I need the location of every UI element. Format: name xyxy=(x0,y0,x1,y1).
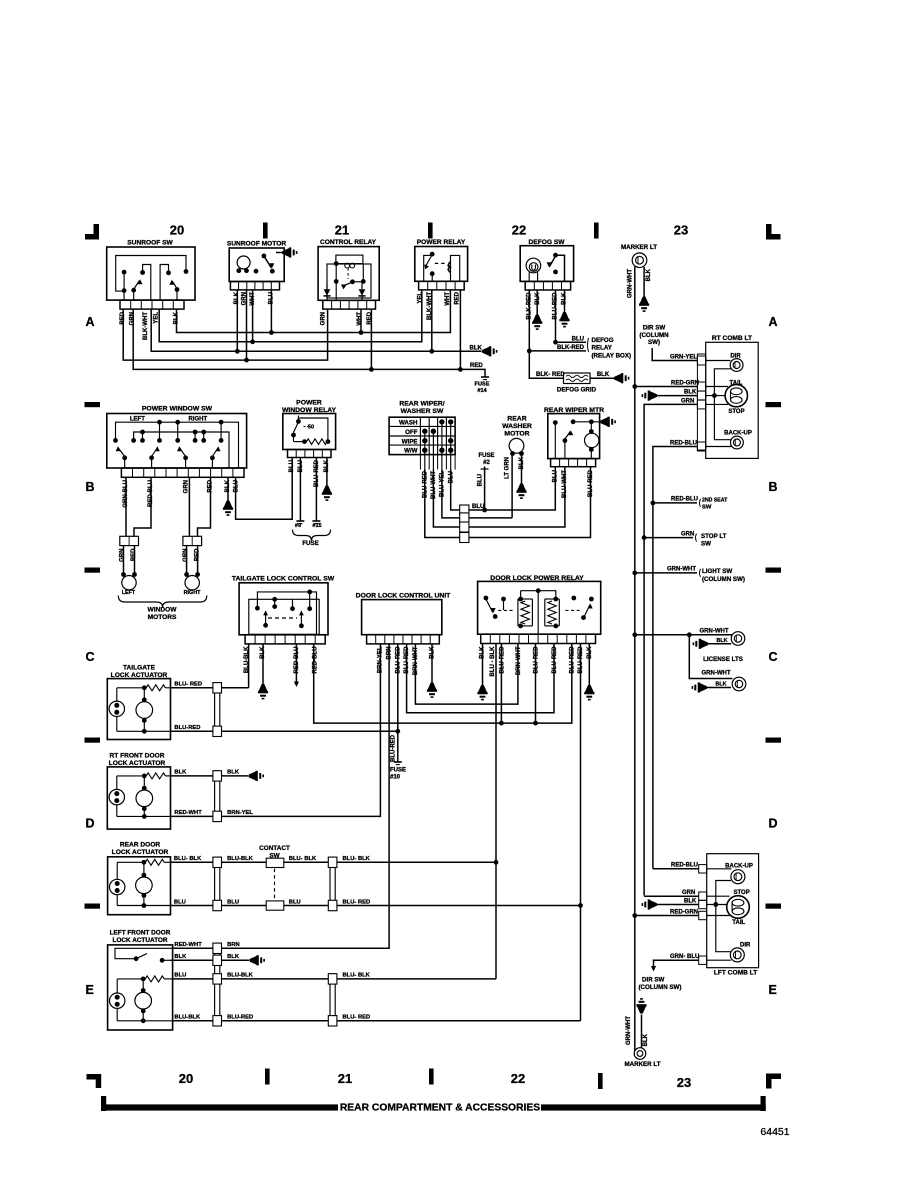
svg-text:BLU-RED: BLU-RED xyxy=(552,646,558,674)
svg-text:SUNROOF SW: SUNROOF SW xyxy=(127,240,173,247)
switch SUNROOF SW box xyxy=(107,240,195,310)
bulb DIR (rt comb) xyxy=(706,354,743,372)
svg-text:BLU: BLU xyxy=(472,504,484,510)
wire BRN control unit to LEFT front door actuator xyxy=(246,644,389,948)
svg-text:BLK: BLK xyxy=(684,390,697,396)
svg-text:50: 50 xyxy=(308,425,314,431)
svg-text:BRN: BRN xyxy=(227,942,240,948)
column tick bottom 21/22 xyxy=(429,1069,434,1085)
svg-text:BLK: BLK xyxy=(174,954,187,960)
wire left front door RED-WHT/BRN xyxy=(173,942,246,948)
svg-text:23: 23 xyxy=(674,223,688,238)
svg-text:DEFOG SW: DEFOG SW xyxy=(529,239,566,246)
svg-text:BLU: BLU xyxy=(572,336,584,342)
svg-text:23: 23 xyxy=(677,1075,691,1090)
wire labels GRN RED (left motor) xyxy=(120,548,138,562)
wire sunroof motor BLU drop xyxy=(270,290,272,333)
connector stack rear wiper harness xyxy=(460,505,469,543)
motor REAR WIPER MTR box xyxy=(544,407,604,467)
lamp assembly LFT COMB LT box xyxy=(699,854,759,977)
svg-text:(RELAY BOX): (RELAY BOX) xyxy=(592,352,632,359)
svg-text:#9: #9 xyxy=(295,523,301,529)
wire washer motor BLK to ground xyxy=(521,456,523,484)
svg-text:CONTACT: CONTACT xyxy=(259,845,290,852)
wire defog sw BLU-RED to relay box BLU xyxy=(553,290,586,345)
svg-text:21: 21 xyxy=(335,223,349,238)
svg-text:RED-BLU: RED-BLU xyxy=(670,440,697,446)
ground rt front door BLK xyxy=(249,772,256,781)
relay DOOR LOCK POWER RELAY box xyxy=(478,575,601,644)
svg-text:W/W: W/W xyxy=(404,448,418,455)
wire wiper link BLU-WHT horizontal xyxy=(433,467,565,527)
switch CONTACT SW xyxy=(259,845,290,910)
wire labels rear door top xyxy=(174,856,371,862)
fuse #10 xyxy=(390,762,406,781)
svg-text:BLK: BLK xyxy=(227,770,240,776)
svg-text:RELAY: RELAY xyxy=(592,344,613,351)
wire tailgate sw BLK to ground xyxy=(262,644,264,684)
svg-text:TAILGATE: TAILGATE xyxy=(123,665,156,672)
svg-text:BLU-RED: BLU-RED xyxy=(174,725,200,731)
wire GRN into rt comb lt (trunk T2 start) xyxy=(644,398,697,537)
wire relay BLU-RED p3 drop to long run xyxy=(499,644,504,726)
motor SUNROOF MOTOR box xyxy=(227,241,286,290)
branch RED-BLU to 2ND SEAT SW xyxy=(653,497,728,511)
svg-text:DIR SW: DIR SW xyxy=(642,977,665,984)
wire labels rear door bottom xyxy=(174,899,370,905)
svg-text:BLK-WHT: BLK-WHT xyxy=(143,312,149,340)
wire RED-BLU to left window motor xyxy=(134,477,151,536)
inline connector left front door actuator xyxy=(215,943,220,1026)
svg-text:MOTOR: MOTOR xyxy=(504,431,529,438)
svg-text:RED-BLU: RED-BLU xyxy=(671,863,698,869)
svg-text:OFF: OFF xyxy=(405,429,418,436)
wire door relay BLK p1 to ground xyxy=(482,644,484,686)
svg-text:RED: RED xyxy=(455,291,461,304)
wire RED-GRN into lft comb (from T1) xyxy=(632,909,698,918)
svg-text:GRN: GRN xyxy=(681,531,694,537)
wire GRN-BLU to left window motor xyxy=(125,477,127,536)
svg-text:B: B xyxy=(86,480,95,494)
column tick top 20/21 xyxy=(263,223,268,239)
ground door relay left xyxy=(478,685,487,692)
fuse #2 stub xyxy=(478,453,494,510)
svg-text:MARKER LT: MARKER LT xyxy=(625,1061,661,1068)
svg-text:POWER: POWER xyxy=(296,400,322,407)
svg-text:#15: #15 xyxy=(312,523,321,529)
ground window relay BLK xyxy=(323,486,332,493)
svg-text:STOP: STOP xyxy=(728,409,744,415)
svg-text:WHT: WHT xyxy=(357,312,363,326)
svg-text:BLU-RED: BLU-RED xyxy=(534,646,540,674)
svg-text:BLU: BLU xyxy=(478,474,484,486)
svg-text:BLK: BLK xyxy=(227,954,240,960)
wire control relay WHT drop xyxy=(360,309,362,332)
svg-text:CONTROL RELAY: CONTROL RELAY xyxy=(320,239,377,246)
svg-text:BLK: BLK xyxy=(715,682,726,688)
column tick bottom 22/23 xyxy=(598,1073,603,1089)
svg-text:BLU- RED: BLU- RED xyxy=(343,1015,371,1021)
wire washer motor LT GRN down xyxy=(511,456,513,518)
svg-text:BLU-BLK: BLU-BLK xyxy=(174,1015,201,1021)
switch TAILGATE LOCK CONTROL SW box xyxy=(232,576,335,644)
motor LEFT window xyxy=(121,546,137,596)
svg-text:RED-WHT: RED-WHT xyxy=(174,810,202,816)
svg-text:REAR COMPARTMENT & ACCESSORIES: REAR COMPARTMENT & ACCESSORIES xyxy=(340,1102,540,1113)
svg-text:TAIL: TAIL xyxy=(732,920,745,926)
svg-text:C: C xyxy=(86,650,95,664)
svg-text:DOOR LOCK CONTROL UNIT: DOOR LOCK CONTROL UNIT xyxy=(356,592,451,599)
ground defog grid xyxy=(614,374,621,383)
wire rear door BLU/BLU-RED bottom run xyxy=(171,905,581,907)
wire window relay BLU-RED to fuse 15 xyxy=(312,458,321,530)
wire bus row A line5 (RED feed to FUSE 14) xyxy=(133,309,485,377)
column tick top 22/23 xyxy=(594,223,599,239)
svg-text:BLU: BLU xyxy=(289,460,295,472)
wire RED-GRN into rt comb lt xyxy=(632,380,699,389)
svg-text:GRN-WHT: GRN-WHT xyxy=(626,1016,632,1045)
svg-text:BLU- BLK: BLU- BLK xyxy=(343,856,371,862)
lamp MARKER LT top xyxy=(621,244,657,268)
wire wiper link BLU horizontal xyxy=(451,467,556,513)
svg-text:GRN-WHT: GRN-WHT xyxy=(702,670,731,676)
wire BLK with ground (lft comb) xyxy=(657,898,699,904)
svg-text:GRN-WHT: GRN-WHT xyxy=(628,269,634,298)
svg-text:2ND SEAT: 2ND SEAT xyxy=(702,498,728,504)
wire BLU-RED link control unit p4 to relay p5 xyxy=(407,644,554,713)
branch GRN to STOP LT SW xyxy=(644,531,727,547)
svg-text:20: 20 xyxy=(179,1071,193,1086)
wire defog sw BLK-RED to relay box xyxy=(527,290,586,353)
wire RED to right window motor xyxy=(198,477,211,536)
svg-text:LOCK ACTUATOR: LOCK ACTUATOR xyxy=(113,937,168,944)
svg-text:BLK: BLK xyxy=(470,345,483,351)
callout DIR SW (COLUMN SW) bottom xyxy=(639,977,682,992)
svg-text:WASHER SW: WASHER SW xyxy=(401,408,444,415)
row divider dash left y737 xyxy=(85,738,101,743)
wire control unit BLK to ground xyxy=(431,644,433,683)
wire RED-BLU into rt comb lt (trunk T3 start) xyxy=(653,440,698,503)
svg-text:SW: SW xyxy=(702,505,712,511)
actuator TAILGATE LOCK ACTUATOR box xyxy=(107,665,170,740)
svg-text:RED-BLU: RED-BLU xyxy=(671,497,698,503)
ground rt comb lt BLK xyxy=(650,391,657,400)
svg-text:DEFOG GRID: DEFOG GRID xyxy=(557,387,597,394)
page frame corner mark bottom-left xyxy=(87,1074,102,1088)
svg-text:WINDOW: WINDOW xyxy=(148,607,178,614)
svg-text:DIR: DIR xyxy=(740,943,751,949)
svg-text:GRN-YEL: GRN-YEL xyxy=(670,354,697,360)
svg-text:LEFT: LEFT xyxy=(122,590,136,596)
actuator LEFT FRONT DOOR LOCK ACTUATOR box xyxy=(108,930,173,1031)
svg-text:GRN-WHT: GRN-WHT xyxy=(667,567,696,573)
ground control unit BLK xyxy=(428,683,437,690)
wire power relay RED drop xyxy=(459,290,461,370)
wire BRN-WHT link control unit to relay xyxy=(415,644,518,705)
svg-text:BLU- BLK: BLU- BLK xyxy=(174,856,202,862)
ground door relay right xyxy=(585,685,594,692)
svg-text:BLK: BLK xyxy=(643,1033,649,1046)
svg-text:RT COMB LT: RT COMB LT xyxy=(712,335,752,342)
ground license lower BLK xyxy=(692,682,731,693)
svg-text:A: A xyxy=(769,315,778,329)
wire rt front door RED-WHT/BRN-YEL bottom xyxy=(171,810,254,816)
svg-text:BLU-BLK: BLU-BLK xyxy=(227,973,254,979)
row divider dash right y567 xyxy=(766,568,782,573)
svg-text:E: E xyxy=(86,983,94,997)
relay POWER WINDOW RELAY box xyxy=(282,400,337,458)
svg-text:BRN-WHT: BRN-WHT xyxy=(516,646,522,675)
svg-text:SW): SW) xyxy=(648,339,660,346)
bulb TAIL/STOP (rt comb) xyxy=(706,380,748,415)
wire power relay BLK-WHT drop xyxy=(431,290,433,351)
svg-text:BLU-RED: BLU-RED xyxy=(500,646,506,674)
wire BRN-YEL control unit to RT front door actuator xyxy=(251,644,381,817)
wire defog sw BLK pin2 to ground xyxy=(536,290,538,315)
bulb DIR (lft comb) xyxy=(707,943,751,962)
switch DEFOG SW box xyxy=(520,239,573,290)
relay POWER RELAY box xyxy=(415,239,468,290)
svg-text:22: 22 xyxy=(511,1071,525,1086)
svg-text:BLU-BLK: BLU-BLK xyxy=(227,856,254,862)
motor REAR WASHER MOTOR xyxy=(502,416,532,456)
wire wiper link BLU-YEL to washer LT GRN xyxy=(442,470,512,518)
svg-text:LEFT FRONT DOOR: LEFT FRONT DOOR xyxy=(110,930,171,937)
ground rear wiper mtr xyxy=(601,417,608,426)
row divider dash right y737 xyxy=(766,738,782,743)
row divider dash left y903 xyxy=(85,904,101,909)
svg-text:BLK: BLK xyxy=(684,898,697,904)
connector right window motor xyxy=(183,536,202,545)
callout DEFOG RELAY (RELAY BOX) xyxy=(588,337,632,360)
ground above marker lt bottom xyxy=(636,998,646,1048)
svg-text:BLU- RED: BLU- RED xyxy=(174,682,202,688)
svg-text:(COLUMN: (COLUMN xyxy=(639,332,669,339)
wire rt front door BLK top xyxy=(171,770,249,776)
svg-text:MARKER LT: MARKER LT xyxy=(621,244,657,251)
connector left window motor xyxy=(120,536,139,545)
motor RIGHT window xyxy=(184,546,201,596)
svg-text:FUSE: FUSE xyxy=(478,453,494,459)
wire vertical V1 BLU-BLK from relay to rear/left door xyxy=(494,644,499,979)
svg-text:D: D xyxy=(86,817,95,831)
lamp assembly RT COMB LT box xyxy=(697,335,758,458)
svg-text:BLK- RED: BLK- RED xyxy=(536,372,565,378)
svg-text:BLK: BLK xyxy=(174,770,187,776)
ground washer motor xyxy=(517,484,526,491)
svg-text:RIGHT: RIGHT xyxy=(184,590,201,596)
svg-text:#2: #2 xyxy=(483,460,490,466)
ground row A BLK bus xyxy=(482,347,489,356)
svg-text:WASHER: WASHER xyxy=(502,423,532,430)
wire BLU-RED control unit p3 to tailgate actuator and fuse 10 xyxy=(395,644,400,762)
inline connector rt front door actuator xyxy=(215,771,220,822)
svg-text:POWER RELAY: POWER RELAY xyxy=(417,239,466,246)
svg-text:BLU: BLU xyxy=(227,899,239,905)
svg-text:BLK: BLK xyxy=(646,268,652,281)
wire left front door BLK to ground xyxy=(171,954,250,960)
svg-text:GRN: GRN xyxy=(681,398,694,404)
svg-text:POWER WINDOW SW: POWER WINDOW SW xyxy=(142,406,213,413)
wire sunroof motor WHT drop xyxy=(252,290,254,342)
wire bus row A line3 (BLK to ground) xyxy=(151,309,481,354)
branch GRN-WHT to LIGHT SW (COLUMN SW) xyxy=(632,567,745,583)
wire window relay BLU to fuse 9 xyxy=(295,458,305,530)
wire RED-BLU into lft comb (from T3) xyxy=(653,863,699,869)
ground license upper BLK xyxy=(693,638,732,649)
svg-text:GRN: GRN xyxy=(183,549,189,562)
resistive element DEFOG GRID xyxy=(557,373,597,394)
svg-text:BLU: BLU xyxy=(289,899,301,905)
wire defog grid BLK to ground xyxy=(590,372,614,378)
wire sunroof motor GRN drop xyxy=(246,290,248,360)
ground defog sw pin4 xyxy=(560,312,569,319)
wire vertical V2 BLU-RED from relay to rear/left door xyxy=(578,644,583,1021)
ground left front door BLK xyxy=(250,956,257,965)
svg-text:MOTORS: MOTORS xyxy=(148,614,177,621)
svg-text:BACK-UP: BACK-UP xyxy=(724,430,752,436)
row divider dash right y903 xyxy=(766,904,782,909)
switch POWER WINDOW SW box xyxy=(107,406,247,478)
row divider dash right y402 xyxy=(766,402,782,407)
lamp internal common wire (lft comb) xyxy=(713,881,731,952)
ground defog sw pin2 xyxy=(533,315,542,322)
svg-text:REAR WIPER MTR: REAR WIPER MTR xyxy=(544,407,604,414)
lamp internal common wire (rt comb) xyxy=(712,369,731,440)
wire BLK marker top to ground xyxy=(643,267,645,297)
svg-text:LT GRN: LT GRN xyxy=(504,457,510,479)
wire left front door BLU-BLK/BLU-RED run xyxy=(173,1015,581,1021)
svg-text:FUSE: FUSE xyxy=(475,382,490,388)
svg-text:FUSE: FUSE xyxy=(302,540,319,547)
svg-text:BLU-RED: BLU-RED xyxy=(391,734,397,762)
svg-text:BLU - BLK: BLU - BLK xyxy=(490,646,496,677)
wire tailgate actuator BLU-RED top xyxy=(171,644,249,688)
wire door relay BLK p9 to ground xyxy=(588,644,590,686)
relay CONTROL RELAY box xyxy=(318,239,379,309)
svg-text:SW: SW xyxy=(701,540,711,547)
svg-text:64451: 64451 xyxy=(760,1126,789,1138)
svg-text:BLU- RED: BLU- RED xyxy=(343,899,371,905)
wire tailgate sw RED-BLU#2 long run xyxy=(314,644,572,724)
row divider dash left y402 xyxy=(85,402,101,407)
svg-text:21: 21 xyxy=(338,1071,352,1086)
callout DIR SW (COLUMN SW) top xyxy=(639,325,669,347)
wire BLK with ground (rt comb lt) xyxy=(657,390,697,396)
ground at sunroof motor xyxy=(282,248,289,257)
wire wiper link BLU-RED horizontal xyxy=(425,467,591,538)
svg-text:BLK-RED: BLK-RED xyxy=(557,345,585,351)
actuator RT FRONT DOOR LOCK ACTUATOR box xyxy=(107,753,170,830)
svg-text:WASH: WASH xyxy=(399,419,418,426)
page frame corner mark top-right xyxy=(766,224,781,240)
svg-text:GRN: GRN xyxy=(120,549,126,562)
svg-text:BLU: BLU xyxy=(174,899,186,905)
svg-text:GRN- BLU: GRN- BLU xyxy=(670,954,699,960)
wire bus row A line4 (RED to control relay GRN) xyxy=(123,309,327,362)
lamp LICENSE LTS upper xyxy=(632,629,744,646)
svg-text:WIPE: WIPE xyxy=(402,438,418,445)
wire trunk T2 GRN vertical xyxy=(642,535,647,895)
ground tailgate sw BLK xyxy=(259,684,268,691)
switch REAR WIPER/WASHER SW table xyxy=(389,401,455,470)
svg-text:BLU: BLU xyxy=(234,480,240,492)
lamp LICENSE LTS lower xyxy=(689,635,746,691)
ground window sw BLK xyxy=(224,501,233,508)
wire GRN-WHT from marker lt (trunk T1) xyxy=(634,267,636,307)
wire rear door BLU-BLK top run xyxy=(171,861,497,863)
wire labels GRN RED (right motor) xyxy=(183,548,201,562)
wire relay BLU-RED p5 drop to long run xyxy=(533,644,538,726)
wire bus row A line2 (YEL) xyxy=(159,290,422,344)
inline connector left front door actuator 2 xyxy=(330,974,335,1026)
page frame corner mark top-left xyxy=(85,224,99,240)
svg-text:BLU-RED: BLU-RED xyxy=(570,646,576,674)
brace WINDOW MOTORS xyxy=(118,596,207,622)
svg-text:TAILGATE LOCK CONTROL SW: TAILGATE LOCK CONTROL SW xyxy=(232,576,335,583)
wire GRN-BLU from DIR SW into lft comb xyxy=(651,954,699,972)
svg-text:SUNROOF MOTOR: SUNROOF MOTOR xyxy=(227,241,286,248)
row divider dash left y567 xyxy=(85,568,101,573)
wire window relay BLK to ground xyxy=(326,458,328,486)
svg-text:BLU- BLK: BLU- BLK xyxy=(289,856,317,862)
svg-text:STOP LT: STOP LT xyxy=(701,533,727,540)
svg-text:RED-GRN: RED-GRN xyxy=(671,380,699,386)
wire trunk T3 RED-BLU vertical xyxy=(651,501,656,869)
ground marker lt top xyxy=(640,297,649,304)
svg-text:BLK: BLK xyxy=(535,292,541,305)
svg-text:LOCK ACTUATOR: LOCK ACTUATOR xyxy=(109,760,166,767)
inline connector rear door actuator 1 xyxy=(215,857,220,910)
svg-text:LOCK ACTUATOR: LOCK ACTUATOR xyxy=(112,849,169,856)
svg-text:FUSE: FUSE xyxy=(390,768,406,774)
svg-text:(COLUMN SW): (COLUMN SW) xyxy=(702,576,745,583)
svg-text:RED-GRN: RED-GRN xyxy=(670,909,698,915)
ground lft comb BLK xyxy=(650,900,657,909)
column tick bottom 20/21 xyxy=(265,1069,270,1085)
svg-text:BLU: BLU xyxy=(174,973,186,979)
wire tailgate actuator BLU-RED bottom xyxy=(171,725,398,731)
svg-text:C: C xyxy=(769,650,778,664)
svg-text:LFT COMB LT: LFT COMB LT xyxy=(714,970,757,977)
page frame corner mark bottom-right xyxy=(766,1074,781,1089)
wire GRN into lft comb (from T2) xyxy=(644,890,699,896)
svg-text:A: A xyxy=(86,315,95,329)
bulb STOP/TAIL (lft comb) xyxy=(707,890,750,926)
bottom title banner bracket xyxy=(101,1096,766,1111)
bulb BACK-UP (rt comb) xyxy=(706,430,752,449)
bulb BACK-UP (lft comb) xyxy=(707,863,753,883)
svg-text:BRN-YEL: BRN-YEL xyxy=(227,810,253,816)
wire defog sw BLK-RED down to defog grid xyxy=(529,351,563,378)
wire tailgate sw RED-BLU#1 with arrow xyxy=(294,644,299,687)
unit DOOR LOCK CONTROL UNIT box xyxy=(356,592,451,644)
column tick top 21/22 xyxy=(428,223,433,239)
svg-text:BLK: BLK xyxy=(597,372,610,378)
svg-text:BLU- BLK: BLU- BLK xyxy=(343,973,371,979)
wire left front door BLU/BLU-BLK run xyxy=(173,973,496,979)
svg-text:GRN: GRN xyxy=(682,890,695,896)
svg-text:22: 22 xyxy=(512,223,526,238)
wire bus row A line1 (BLK-WHT/WHT) xyxy=(177,290,451,335)
svg-text:DEFOG: DEFOG xyxy=(592,337,614,344)
actuator REAR DOOR LOCK ACTUATOR box xyxy=(108,842,171,915)
wire GRN-YEL dir sw to RT comb lt xyxy=(652,348,697,361)
svg-text:GRN-WHT: GRN-WHT xyxy=(700,629,729,635)
inline connector tailgate actuator xyxy=(215,683,220,737)
svg-text:REAR DOOR: REAR DOOR xyxy=(120,842,161,849)
wire sunroof motor BLK drop xyxy=(236,290,238,351)
